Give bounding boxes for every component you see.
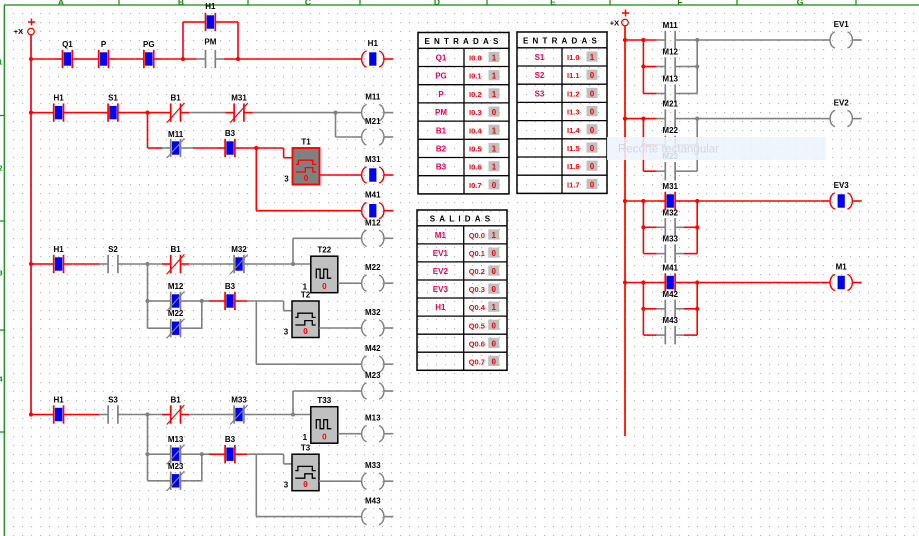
svg-text:EV1: EV1 bbox=[834, 20, 850, 29]
wire rail to M11 bbox=[625, 39, 657, 41]
contact M41 bbox=[657, 264, 684, 292]
coil M13 bbox=[352, 414, 393, 442]
junction right riser row2 M1 bbox=[695, 307, 699, 311]
contact H1 bypass bbox=[197, 2, 224, 31]
coil M22 bbox=[352, 263, 393, 291]
svg-text:Q0.3: Q0.3 bbox=[469, 285, 485, 294]
svg-text:1: 1 bbox=[491, 231, 496, 240]
coil M33 bbox=[352, 461, 393, 489]
svg-text:M42: M42 bbox=[365, 344, 381, 353]
svg-text:I1.5: I1.5 bbox=[567, 144, 580, 153]
coil EV2 bbox=[821, 99, 862, 127]
svg-text:1: 1 bbox=[492, 90, 497, 99]
wire left riser EV1 bbox=[643, 40, 656, 94]
wire rung3 B3 to T2 bbox=[247, 301, 292, 311]
svg-text:0: 0 bbox=[304, 174, 309, 183]
wire rung3 B3 left red bbox=[209, 300, 216, 302]
junction rung4 branch node bbox=[145, 412, 149, 416]
svg-text:3: 3 bbox=[0, 269, 3, 278]
junction left riser EV1 bbox=[641, 38, 645, 42]
contact B1 rung4 bbox=[162, 396, 189, 425]
svg-text:M43: M43 bbox=[365, 497, 381, 506]
svg-text:M43: M43 bbox=[662, 316, 678, 325]
wire left riser EV3 bbox=[643, 201, 656, 254]
wire rung3 to B3 bbox=[202, 300, 209, 302]
wire rung1 PM to node bbox=[224, 58, 238, 60]
wire rung1 H1 bypass branch bbox=[183, 22, 238, 59]
svg-text:I1.6: I1.6 bbox=[567, 162, 580, 171]
table ENTRADAS 2 bbox=[517, 32, 607, 193]
contact M42 bbox=[657, 290, 684, 318]
junction rail group EV2 bbox=[623, 117, 627, 121]
svg-text:I1.0: I1.0 bbox=[567, 53, 580, 62]
contact P bbox=[90, 40, 117, 68]
svg-text:M33: M33 bbox=[231, 396, 247, 405]
svg-text:I0.3: I0.3 bbox=[469, 108, 482, 117]
contact M31 bbox=[657, 182, 684, 210]
junction rail-rung1 bbox=[29, 57, 33, 61]
wire rung4 S3 to node bbox=[127, 414, 162, 416]
svg-text:1: 1 bbox=[491, 303, 496, 312]
contact B3 rung3 bbox=[216, 282, 243, 310]
svg-text:M32: M32 bbox=[662, 208, 678, 217]
svg-text:I1.1: I1.1 bbox=[567, 71, 580, 80]
junction rail-rung2 bbox=[29, 111, 33, 115]
coil M32 bbox=[352, 308, 393, 336]
wire rung3 rail to H1 bbox=[31, 263, 45, 265]
wire rung2 rail to H1 bbox=[31, 112, 45, 114]
svg-text:T1: T1 bbox=[301, 138, 311, 147]
svg-text:P: P bbox=[438, 90, 444, 99]
contact M32 bbox=[657, 208, 684, 236]
wire rung4 B1-M33 bbox=[189, 414, 225, 416]
svg-text:I1.4: I1.4 bbox=[567, 126, 580, 135]
junction right riser EV2 bbox=[695, 117, 699, 121]
junction rung3 parallel right node bbox=[200, 299, 204, 303]
svg-text:1: 1 bbox=[492, 145, 497, 154]
contact H1 rung4 bbox=[45, 396, 72, 424]
contact PG bbox=[135, 40, 162, 68]
wire group to coil EV3 bbox=[697, 200, 820, 202]
wire T22 to coil M22 bbox=[338, 282, 353, 284]
junction right riser M1 bbox=[695, 280, 699, 284]
coil M21 bbox=[352, 117, 393, 145]
junction right riser row2 EV3 bbox=[695, 225, 699, 229]
svg-text:0: 0 bbox=[322, 282, 327, 291]
svg-text:M33: M33 bbox=[365, 461, 381, 470]
svg-text:0: 0 bbox=[590, 89, 595, 98]
svg-text:T2: T2 bbox=[301, 291, 311, 300]
svg-text:B1: B1 bbox=[170, 396, 181, 405]
contact M21 bbox=[657, 100, 684, 128]
svg-text:M12: M12 bbox=[168, 282, 184, 291]
contact M43 bbox=[657, 316, 684, 344]
svg-text:EV3: EV3 bbox=[834, 181, 850, 190]
svg-text:2: 2 bbox=[0, 164, 3, 173]
wire right riser EV2 bbox=[684, 119, 697, 172]
svg-text:0: 0 bbox=[492, 108, 497, 117]
coil M23 bbox=[352, 371, 393, 399]
svg-text:B3: B3 bbox=[225, 129, 236, 138]
svg-text:I0.5: I0.5 bbox=[469, 145, 482, 154]
svg-text:1: 1 bbox=[0, 58, 3, 67]
svg-text:B: B bbox=[178, 0, 184, 7]
svg-text:ENTRADAS: ENTRADAS bbox=[424, 37, 502, 46]
coil M11 bbox=[352, 93, 393, 121]
wire rung4 to B3 bbox=[202, 453, 209, 455]
svg-text:1: 1 bbox=[492, 54, 497, 63]
contact M11 bbox=[657, 21, 684, 49]
svg-text:1: 1 bbox=[492, 163, 497, 172]
svg-text:Q0.2: Q0.2 bbox=[469, 267, 485, 276]
svg-text:M13: M13 bbox=[365, 414, 381, 423]
svg-text:M22: M22 bbox=[365, 263, 381, 272]
junction left riser EV2 bbox=[641, 117, 645, 121]
junction right riser EV3 bbox=[695, 199, 699, 203]
svg-text:Q1: Q1 bbox=[62, 40, 73, 49]
wire rung1 to coil H1 bbox=[238, 58, 352, 60]
contact M13 bbox=[657, 75, 684, 103]
node +X left power terminal bbox=[14, 19, 35, 37]
svg-text:M1: M1 bbox=[435, 231, 447, 240]
svg-text:P: P bbox=[101, 40, 107, 49]
junction left riser EV3 bbox=[641, 199, 645, 203]
svg-text:A: A bbox=[58, 0, 64, 7]
wire group to coil EV1 bbox=[697, 39, 820, 41]
junction right riser row2 EV1 bbox=[695, 64, 699, 68]
wire rung2 M31 to coils bbox=[253, 112, 353, 114]
table SALIDAS bbox=[417, 210, 507, 370]
svg-text:B3: B3 bbox=[436, 163, 447, 172]
svg-text:S1: S1 bbox=[535, 53, 545, 62]
coil EV1 bbox=[821, 20, 862, 48]
svg-text:Q0.4: Q0.4 bbox=[469, 303, 486, 312]
svg-text:1: 1 bbox=[492, 72, 497, 81]
timer T3 bbox=[284, 444, 319, 491]
svg-text:3: 3 bbox=[284, 328, 289, 337]
svg-text:H1: H1 bbox=[435, 303, 446, 312]
wire to coil M12 from rung3 bbox=[293, 238, 352, 264]
svg-text:M32: M32 bbox=[231, 245, 247, 254]
svg-text:I1.2: I1.2 bbox=[567, 89, 580, 98]
wire rung4 sub-branch drop bbox=[148, 415, 163, 481]
svg-text:0: 0 bbox=[590, 71, 595, 80]
svg-text:M22: M22 bbox=[168, 309, 184, 318]
wire T2 to coil M32 bbox=[319, 327, 352, 329]
svg-text:M13: M13 bbox=[662, 75, 678, 84]
svg-text:M11: M11 bbox=[663, 21, 679, 30]
wire T1 to coil M31 bbox=[320, 174, 353, 176]
svg-text:I1.3: I1.3 bbox=[567, 108, 580, 117]
contact M33 bbox=[657, 235, 684, 263]
wire rung4 B3 left red bbox=[209, 453, 216, 455]
junction rung3 parallel left bbox=[145, 299, 149, 303]
svg-text:M11: M11 bbox=[168, 130, 184, 139]
junction rung3 branch node bbox=[145, 262, 149, 266]
wire rail to M21 bbox=[625, 118, 657, 120]
wire rung2 S1 to node bbox=[127, 112, 162, 114]
svg-text:H1: H1 bbox=[53, 245, 64, 254]
junction rail group EV1 bbox=[623, 38, 627, 42]
wire T3 to coil M33 bbox=[319, 480, 352, 482]
junction rung1 PM-branch left bbox=[181, 57, 185, 61]
svg-text:S2: S2 bbox=[108, 245, 118, 254]
wire rung4 H1-S3 bbox=[72, 414, 99, 416]
wire rung2 sub-branch drop bbox=[148, 113, 163, 148]
svg-text:H1: H1 bbox=[53, 94, 64, 103]
svg-text:H1: H1 bbox=[368, 39, 379, 48]
coil M12 bbox=[352, 218, 393, 246]
svg-text:0: 0 bbox=[322, 433, 327, 442]
wire group to coil M1 bbox=[697, 282, 820, 284]
svg-text:M23: M23 bbox=[168, 462, 184, 471]
svg-text:Q1: Q1 bbox=[436, 54, 447, 63]
svg-text:+X: +X bbox=[14, 27, 23, 36]
wire M21 to right riser bbox=[684, 118, 697, 120]
svg-text:Q0.6: Q0.6 bbox=[469, 339, 485, 348]
coil H1 bbox=[352, 39, 393, 67]
wire rung3 sub-branch drop bbox=[148, 264, 163, 328]
wire rung1 Q1-P bbox=[81, 58, 90, 60]
wire to coil M42 bbox=[256, 301, 352, 364]
svg-text:3: 3 bbox=[284, 481, 289, 490]
timer T1 bbox=[284, 138, 319, 185]
wire rung2 to coil M21 bbox=[336, 113, 353, 137]
timer T33 bbox=[303, 396, 338, 443]
svg-text:B3: B3 bbox=[225, 282, 236, 291]
contact H1 rung2 bbox=[45, 94, 72, 122]
svg-text:1: 1 bbox=[590, 53, 595, 62]
svg-text:M41: M41 bbox=[662, 264, 678, 273]
junction rail-rung4 bbox=[29, 412, 33, 416]
junction rung2 coil branch bbox=[333, 111, 337, 115]
svg-text:B1: B1 bbox=[436, 126, 447, 135]
svg-text:0: 0 bbox=[491, 249, 496, 258]
svg-text:M11: M11 bbox=[365, 93, 381, 102]
junction rung4 parallel right node bbox=[200, 452, 204, 456]
wire rail to M31 bbox=[625, 200, 657, 202]
contact M12 NC bbox=[162, 282, 189, 311]
wire rung4 parallel right bbox=[189, 454, 202, 481]
contact M23 NC bbox=[162, 462, 189, 491]
svg-text:Recorte rectangular: Recorte rectangular bbox=[618, 144, 719, 156]
svg-text:I0.6: I0.6 bbox=[469, 163, 482, 172]
svg-text:I1.7: I1.7 bbox=[567, 180, 580, 189]
svg-text:B2: B2 bbox=[436, 145, 447, 154]
svg-text:M42: M42 bbox=[662, 290, 678, 299]
contact M13 NC bbox=[162, 435, 189, 464]
svg-text:M22: M22 bbox=[662, 126, 678, 135]
contact Q1 bbox=[54, 40, 81, 68]
svg-text:SALIDAS: SALIDAS bbox=[430, 214, 495, 223]
coil M31 bbox=[352, 155, 393, 183]
svg-text:S1: S1 bbox=[108, 94, 118, 103]
svg-text:Q0.7: Q0.7 bbox=[469, 357, 485, 366]
svg-text:0: 0 bbox=[491, 321, 496, 330]
svg-text:M13: M13 bbox=[168, 435, 184, 444]
wire T33 to coil M13 bbox=[338, 433, 353, 435]
wire rung1 PG to node bbox=[162, 58, 196, 60]
svg-text:S3: S3 bbox=[108, 396, 118, 405]
svg-text:H1: H1 bbox=[205, 2, 216, 11]
coil M42 bbox=[352, 344, 393, 372]
contact S3 bbox=[99, 396, 126, 424]
svg-text:T22: T22 bbox=[317, 246, 331, 255]
svg-text:0: 0 bbox=[491, 267, 496, 276]
wire rung3 B1-M32 bbox=[189, 263, 225, 265]
junction right riser EV1 bbox=[695, 38, 699, 42]
svg-text:M12: M12 bbox=[365, 218, 381, 227]
svg-text:C: C bbox=[305, 0, 311, 7]
svg-text:M33: M33 bbox=[662, 235, 678, 244]
contact B1 rung3 bbox=[162, 245, 189, 274]
wire right riser M1 bbox=[684, 283, 697, 336]
svg-text:EV2: EV2 bbox=[433, 267, 449, 276]
svg-text:Q0.1: Q0.1 bbox=[469, 249, 485, 258]
svg-text:+X: +X bbox=[610, 19, 619, 28]
svg-text:EV1: EV1 bbox=[433, 249, 449, 258]
junction left riser M1 bbox=[641, 280, 645, 284]
wire M31 to right riser bbox=[684, 200, 697, 202]
svg-text:M12: M12 bbox=[662, 48, 678, 57]
contact M11 NC bbox=[162, 130, 189, 158]
wire rail to M41 bbox=[625, 282, 657, 284]
svg-text:3: 3 bbox=[284, 175, 289, 184]
contact S1 bbox=[99, 94, 126, 122]
svg-text:0: 0 bbox=[491, 285, 496, 294]
svg-text:S3: S3 bbox=[535, 89, 545, 98]
coil M1 bbox=[821, 263, 862, 291]
contact M33 NC bbox=[225, 396, 252, 425]
tooltip Recorte rectangular overlay bbox=[607, 137, 826, 160]
junction right riser row2 EV2 bbox=[695, 143, 699, 147]
svg-text:I0.0: I0.0 bbox=[469, 54, 482, 63]
svg-text:1: 1 bbox=[303, 433, 308, 442]
svg-text:S2: S2 bbox=[535, 71, 545, 80]
junction left riser row2 EV2 bbox=[641, 143, 645, 147]
svg-text:0: 0 bbox=[590, 144, 595, 153]
svg-text:M31: M31 bbox=[231, 94, 247, 103]
junction rail-rung3 bbox=[29, 262, 33, 266]
junction rung2 branch node bbox=[145, 111, 149, 115]
coil M41 bbox=[352, 191, 393, 219]
wire rung4 M33 to T33 bbox=[253, 414, 311, 416]
svg-text:I0.7: I0.7 bbox=[469, 181, 482, 190]
junction left riser row2 EV3 bbox=[641, 225, 645, 229]
wire M11 to right riser bbox=[684, 39, 697, 41]
wire rung4 B3 right red bbox=[244, 453, 247, 455]
contact M22 bbox=[657, 126, 684, 154]
svg-text:1: 1 bbox=[492, 126, 497, 135]
contact B1 rung2 bbox=[162, 94, 189, 123]
svg-text:B1: B1 bbox=[170, 245, 181, 254]
contact S2 bbox=[99, 245, 126, 273]
wire rung3 S2 to node bbox=[127, 263, 162, 265]
svg-text:0: 0 bbox=[491, 339, 496, 348]
svg-text:Q0.0: Q0.0 bbox=[469, 231, 485, 240]
wire left vertical rail bbox=[30, 35, 32, 415]
contact PM bbox=[197, 38, 224, 69]
contact H1 rung3 bbox=[45, 245, 72, 273]
junction rung1 PM-branch right bbox=[236, 57, 240, 61]
contact M23 bbox=[657, 152, 684, 180]
wire rung3 parallel right bbox=[189, 301, 202, 328]
svg-text:PM: PM bbox=[435, 108, 447, 117]
junction rung4 M23 riser bbox=[291, 412, 295, 416]
svg-text:0: 0 bbox=[303, 480, 308, 489]
timer T2 bbox=[284, 291, 319, 338]
svg-text:M41: M41 bbox=[365, 191, 381, 200]
wire right vertical rail bbox=[624, 26, 626, 436]
table ENTRADAS 1 bbox=[418, 33, 509, 194]
wire right riser EV1 bbox=[684, 40, 697, 94]
svg-text:T33: T33 bbox=[317, 396, 331, 405]
svg-text:I0.4: I0.4 bbox=[469, 126, 482, 135]
wire rung4 rail to H1 bbox=[31, 414, 45, 416]
wire group to coil EV2 bbox=[697, 118, 820, 120]
node +X right power terminal bbox=[610, 10, 629, 28]
junction rung4 parallel left bbox=[145, 452, 149, 456]
contact B3 rung2 bbox=[216, 129, 243, 157]
svg-text:M31: M31 bbox=[662, 182, 678, 191]
contact M31 NC bbox=[225, 94, 252, 123]
junction rail group M1 bbox=[623, 280, 627, 284]
svg-text:EV3: EV3 bbox=[433, 285, 449, 294]
svg-text:H1: H1 bbox=[53, 396, 64, 405]
wire rung3 H1-S2 bbox=[72, 263, 99, 265]
svg-text:M21: M21 bbox=[365, 117, 381, 126]
svg-text:0: 0 bbox=[590, 108, 595, 117]
svg-text:G: G bbox=[797, 0, 804, 7]
wire left riser EV2 bbox=[643, 119, 656, 172]
svg-text:M21: M21 bbox=[662, 100, 678, 109]
wire left riser M1 bbox=[643, 283, 656, 336]
svg-text:M31: M31 bbox=[365, 155, 381, 164]
svg-text:D: D bbox=[434, 0, 440, 7]
svg-text:F: F bbox=[677, 0, 682, 7]
svg-text:I0.2: I0.2 bbox=[469, 90, 482, 99]
svg-text:0: 0 bbox=[303, 327, 308, 336]
svg-text:E: E bbox=[550, 0, 556, 7]
svg-text:B1: B1 bbox=[170, 94, 181, 103]
contact M32 NC bbox=[225, 245, 252, 274]
contact B3 rung4 bbox=[216, 435, 243, 463]
contact M12 bbox=[657, 48, 684, 76]
junction rail group EV3 bbox=[623, 199, 627, 203]
coil EV3 bbox=[821, 181, 862, 209]
wire rung2 B3 to T1 bbox=[244, 148, 293, 158]
junction left riser row2 M1 bbox=[641, 307, 645, 311]
wire rung2 H1-S1 bbox=[72, 112, 99, 114]
svg-text:0: 0 bbox=[590, 126, 595, 135]
wire rung2 B1-M31 bbox=[189, 112, 225, 114]
wire right riser EV3 bbox=[684, 201, 697, 254]
svg-text:0: 0 bbox=[590, 180, 595, 189]
svg-text:Q0.5: Q0.5 bbox=[469, 321, 485, 330]
junction rung3 M12 riser bbox=[291, 262, 295, 266]
wire to coil M23 from rung4 bbox=[293, 391, 352, 415]
svg-text:M32: M32 bbox=[365, 308, 381, 317]
svg-text:PG: PG bbox=[143, 40, 155, 49]
wire rung1 P-PG bbox=[117, 58, 135, 60]
wire rung1 rail to Q1 bbox=[31, 58, 54, 60]
junction left riser row2 EV1 bbox=[641, 64, 645, 68]
wire rung2 M11-B3 bbox=[189, 147, 193, 149]
svg-text:0: 0 bbox=[590, 162, 595, 171]
timer T22 bbox=[303, 246, 338, 293]
svg-text:M23: M23 bbox=[365, 371, 381, 380]
wire to coil M41 bbox=[256, 148, 352, 211]
